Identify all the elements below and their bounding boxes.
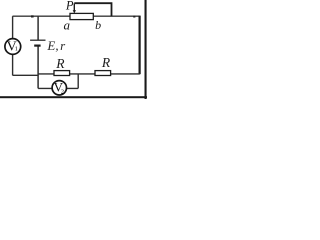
voltmeter V2 <box>52 80 66 96</box>
svg-text:a: a <box>64 17 71 32</box>
svg-text:b: b <box>95 18 101 32</box>
svg-text:R: R <box>101 55 111 70</box>
svg-text:2: 2 <box>61 88 64 95</box>
wire battery branch vertical <box>37 16 39 88</box>
voltmeter V1 <box>5 39 21 55</box>
svg-text:R: R <box>55 56 65 71</box>
wire top horizontal <box>13 15 140 17</box>
rheostat P (slide box a-b) <box>70 13 93 19</box>
svg-text:1: 1 <box>15 45 18 52</box>
rheostat wiper arrow <box>73 3 76 13</box>
wire bottom horizontal <box>13 74 140 75</box>
wire wiper bracket to right <box>74 3 111 16</box>
resistor R2 <box>95 55 111 76</box>
wire left vertical <box>12 16 14 75</box>
wire right vertical <box>139 16 141 75</box>
svg-text:P: P <box>65 0 74 12</box>
wire V2 branch <box>38 74 78 89</box>
battery E,r <box>30 38 66 53</box>
svg-text:E,r: E,r <box>46 38 66 53</box>
resistor R1 <box>54 56 70 76</box>
